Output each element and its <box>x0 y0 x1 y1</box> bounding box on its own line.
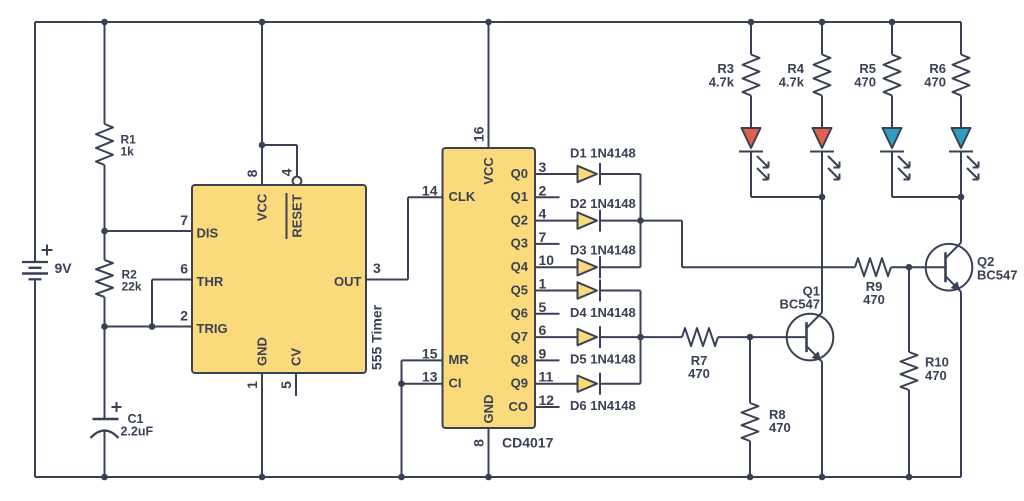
svg-text:TRIG: TRIG <box>197 321 228 336</box>
svg-text:555 Timer: 555 Timer <box>369 304 385 370</box>
svg-text:Q8: Q8 <box>511 352 528 367</box>
svg-text:470: 470 <box>925 368 947 383</box>
svg-text:8: 8 <box>471 439 487 447</box>
svg-text:BC547: BC547 <box>977 268 1017 283</box>
svg-text:4: 4 <box>279 168 295 176</box>
svg-text:BC547: BC547 <box>780 297 820 312</box>
svg-text:Q5: Q5 <box>511 282 528 297</box>
svg-text:470: 470 <box>688 366 710 381</box>
svg-text:4.7k: 4.7k <box>779 75 805 90</box>
svg-text:2: 2 <box>180 308 188 324</box>
svg-text:5: 5 <box>278 381 294 389</box>
svg-text:470: 470 <box>854 75 876 90</box>
svg-text:GND: GND <box>481 395 496 424</box>
svg-text:1: 1 <box>539 276 547 292</box>
svg-text:OUT: OUT <box>334 274 362 289</box>
svg-text:12: 12 <box>539 392 555 408</box>
svg-text:CLK: CLK <box>449 189 476 204</box>
svg-text:470: 470 <box>769 420 791 435</box>
svg-text:15: 15 <box>422 345 438 361</box>
svg-text:6: 6 <box>180 261 188 277</box>
svg-text:470: 470 <box>863 292 885 307</box>
svg-text:MR: MR <box>449 352 470 367</box>
svg-text:D4 1N4148: D4 1N4148 <box>570 305 636 320</box>
svg-text:16: 16 <box>471 126 487 142</box>
svg-text:D2 1N4148: D2 1N4148 <box>570 196 636 211</box>
svg-text:VCC: VCC <box>255 193 270 221</box>
svg-text:D6 1N4148: D6 1N4148 <box>570 398 636 413</box>
svg-text:VCC: VCC <box>481 157 496 185</box>
svg-text:D1 1N4148: D1 1N4148 <box>570 146 636 161</box>
svg-text:Q1: Q1 <box>511 189 528 204</box>
svg-text:Q9: Q9 <box>511 376 528 391</box>
svg-text:Q6: Q6 <box>511 306 528 321</box>
svg-text:5: 5 <box>539 299 547 315</box>
svg-text:9V: 9V <box>55 260 73 276</box>
svg-text:1k: 1k <box>121 145 135 159</box>
svg-text:GND: GND <box>255 337 270 366</box>
svg-text:3: 3 <box>373 260 381 276</box>
svg-text:DIS: DIS <box>197 226 219 241</box>
svg-text:Q2: Q2 <box>511 212 528 227</box>
svg-text:RESET: RESET <box>290 194 305 237</box>
svg-text:Q0: Q0 <box>511 166 528 181</box>
svg-text:11: 11 <box>539 369 554 385</box>
svg-text:10: 10 <box>539 252 555 268</box>
svg-text:D5 1N4148: D5 1N4148 <box>570 352 636 367</box>
svg-text:470: 470 <box>924 75 946 90</box>
svg-text:14: 14 <box>422 182 438 198</box>
svg-text:7: 7 <box>539 229 547 245</box>
svg-text:CD4017: CD4017 <box>502 435 554 451</box>
svg-text:22k: 22k <box>122 280 142 294</box>
svg-text:8: 8 <box>244 169 260 177</box>
svg-text:3: 3 <box>539 159 547 175</box>
svg-text:Q7: Q7 <box>511 329 528 344</box>
svg-text:Q4: Q4 <box>511 259 529 274</box>
svg-text:CV: CV <box>289 348 304 366</box>
svg-text:2: 2 <box>539 182 547 198</box>
svg-text:4: 4 <box>539 206 547 222</box>
svg-text:6: 6 <box>539 322 547 338</box>
svg-text:4.7k: 4.7k <box>709 75 735 90</box>
svg-text:CO: CO <box>509 399 529 414</box>
svg-text:Q3: Q3 <box>511 236 528 251</box>
svg-text:D3 1N4148: D3 1N4148 <box>570 243 636 258</box>
svg-text:CI: CI <box>449 376 462 391</box>
svg-text:9: 9 <box>539 345 547 361</box>
svg-text:13: 13 <box>422 369 438 385</box>
svg-text:7: 7 <box>180 212 188 228</box>
svg-text:2.2uF: 2.2uF <box>121 425 154 439</box>
svg-text:THR: THR <box>197 274 224 289</box>
svg-text:1: 1 <box>244 381 260 389</box>
